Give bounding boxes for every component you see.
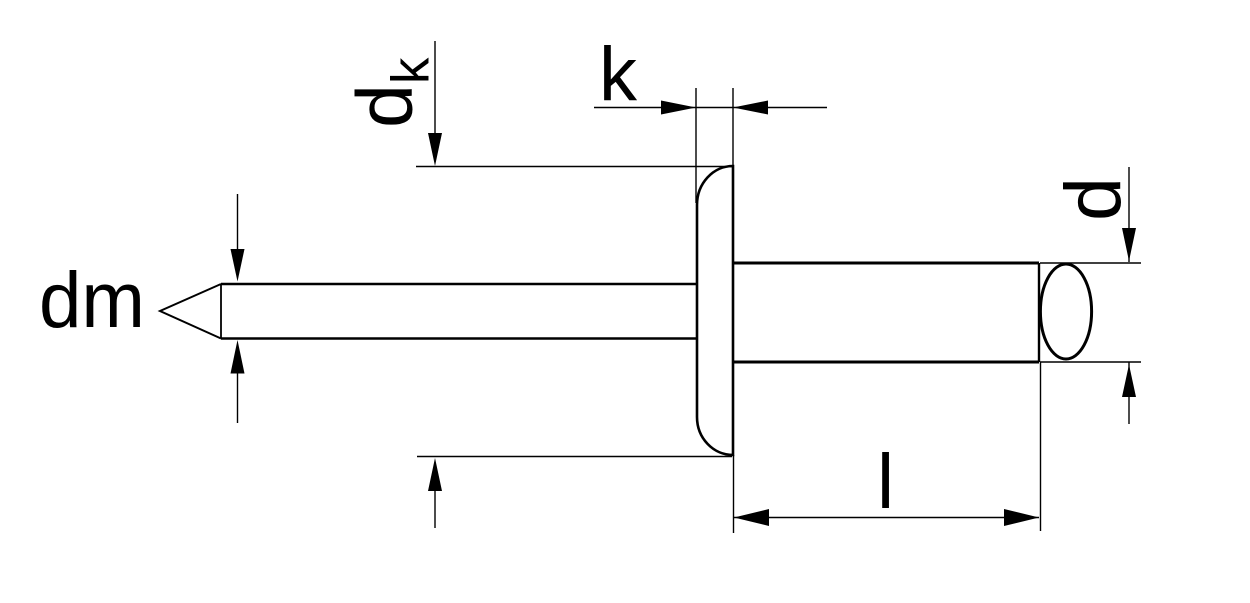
k right arrow (points left) (733, 101, 768, 115)
svg-text:l: l (877, 439, 894, 525)
mandrel pin bottom edge (221, 337, 697, 340)
rivet body top edge (733, 262, 1039, 265)
dm dimension lower arrow (up) (231, 340, 245, 374)
svg-text:k: k (599, 32, 638, 117)
k left arrow (points right) (661, 101, 696, 115)
label dk (rotated) (340, 57, 441, 128)
svg-text:dm: dm (39, 255, 145, 344)
k left extension line (695, 88, 697, 203)
dk lower extension line (417, 456, 732, 458)
dk dimension lower arrow (up) (428, 458, 442, 491)
k right extension line (732, 88, 734, 166)
k dimension line (594, 107, 827, 109)
dm dimension upper arrow (down) (231, 249, 245, 282)
rivet body end ellipse (1040, 264, 1091, 359)
l right extension line (1040, 362, 1042, 531)
mandrel pin cone tip (160, 284, 221, 339)
d dimension lower arrow (up) (1122, 365, 1136, 398)
dk dimension lower leader line (434, 485, 436, 528)
l left extension line (733, 455, 735, 533)
rivet head (flange) outline (697, 166, 733, 455)
rivet body end cap line (1038, 263, 1040, 362)
d upper extension line (1040, 262, 1141, 264)
l dimension line (734, 517, 1039, 519)
mandrel pin cone base line (220, 284, 222, 339)
d lower extension line (1040, 361, 1141, 363)
rivet body bottom edge (733, 361, 1039, 364)
l left arrow (points left) (734, 509, 769, 526)
dk upper extension line (416, 166, 732, 168)
l right arrow (points right) (1004, 509, 1039, 526)
dm dimension lower leader line (237, 365, 239, 423)
label d (rotated) (1048, 177, 1137, 221)
d dimension upper leader line (1128, 167, 1130, 262)
dm dimension upper leader line (237, 194, 239, 260)
svg-text:d: d (1048, 177, 1137, 221)
d dimension upper arrow (down) (1122, 228, 1136, 261)
dk dimension upper leader line (434, 41, 436, 140)
d dimension lower leader line (1128, 363, 1130, 425)
mandrel pin top edge (221, 283, 697, 286)
dk dimension upper arrow (down) (428, 133, 442, 166)
